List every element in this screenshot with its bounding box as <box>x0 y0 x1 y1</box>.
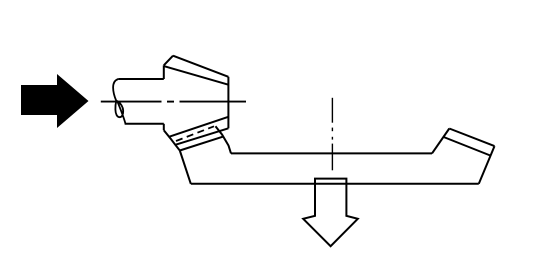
boss left face upper <box>163 65 165 79</box>
boss top silhouette line <box>173 56 228 77</box>
boss bottom silhouette line <box>169 117 229 137</box>
end pad inner edge <box>444 137 491 156</box>
arm neck left edge <box>180 151 191 184</box>
hidden taper hole line (dashed) <box>176 126 214 141</box>
arm right end edge <box>479 146 495 184</box>
arm bottom line <box>191 183 479 185</box>
arm lower strip line <box>180 137 223 151</box>
boss right face <box>227 77 229 129</box>
vertical centerline (dash-dot) of arm hole <box>331 98 333 171</box>
input force arrow (solid black, pointing right) <box>21 74 89 128</box>
end pad top edge <box>449 129 494 147</box>
boss bottom-left edge polyline <box>164 130 180 150</box>
arm neck right edge <box>216 126 232 153</box>
arm right bend edge <box>432 129 449 154</box>
arm top line <box>231 152 432 154</box>
arm upper-left strip line <box>175 128 228 145</box>
boss left face lower <box>163 124 165 130</box>
horizontal centerline (dash-dot) of stud axis <box>101 101 246 103</box>
stud shank bottom line <box>125 123 164 125</box>
output force arrow (outline, pointing down) <box>303 179 358 247</box>
S-break at left end of shank <box>113 79 126 124</box>
boss top-left chamfer <box>164 56 173 66</box>
stud shank top line <box>118 78 164 80</box>
boss top inner edge line <box>164 66 228 84</box>
